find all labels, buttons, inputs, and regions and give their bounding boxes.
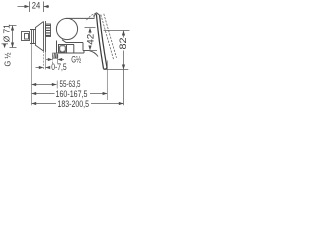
svg-text:G ½: G ½ <box>3 52 13 66</box>
svg-text:G½: G½ <box>71 54 81 64</box>
svg-text:55-63,5: 55-63,5 <box>60 79 81 89</box>
svg-text:183-200,5: 183-200,5 <box>58 99 90 109</box>
svg-text:160-167,5: 160-167,5 <box>56 89 88 99</box>
svg-text:82: 82 <box>118 38 128 50</box>
svg-text:24: 24 <box>32 1 41 11</box>
svg-text:42: 42 <box>85 34 95 45</box>
svg-text:Ø 71: Ø 71 <box>2 24 12 42</box>
svg-text:0-7,5: 0-7,5 <box>51 62 66 72</box>
